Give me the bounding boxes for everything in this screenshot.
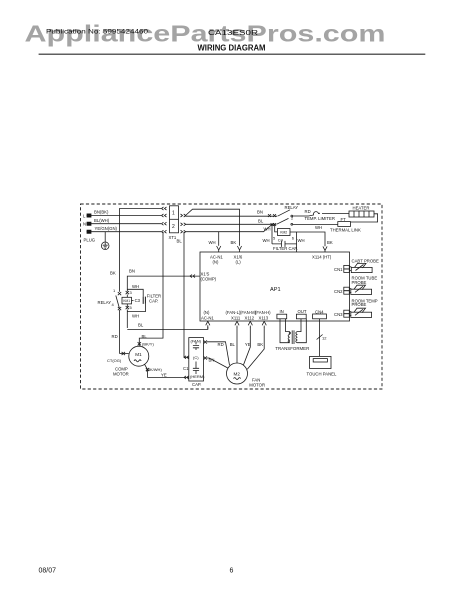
fan wire RD from cap (207, 342, 230, 365)
svg-text:6: 6 (230, 568, 234, 575)
svg-text:X1'S: X1'S (201, 271, 210, 276)
svg-text:KM1: KM1 (123, 299, 130, 303)
title rule (39, 53, 426, 55)
svg-text:WH: WH (132, 284, 139, 289)
svg-text:CAP.: CAP. (149, 298, 158, 303)
svg-text:(N): (N) (213, 259, 219, 264)
connector CN4 (313, 314, 327, 356)
svg-text:(HERM): (HERM) (190, 374, 205, 379)
svg-text:WH: WH (132, 314, 139, 319)
svg-text:X114 (HT): X114 (HT) (312, 255, 332, 260)
fan motor M2 (227, 363, 248, 384)
svg-text:IN: IN (280, 309, 284, 314)
wire YEGN spare drop to comp motor top (139, 232, 163, 347)
terminal mark comp S (146, 368, 149, 371)
connector arrows XT1 right (181, 214, 186, 233)
svg-text:(FAN-H): (FAN-H) (255, 310, 271, 315)
svg-text:RELAY: RELAY (285, 205, 299, 210)
connector CN2 (344, 287, 352, 294)
svg-text:FILTER CAP.: FILTER CAP. (273, 246, 298, 251)
wire N drop from XT1 to cap C (184, 232, 189, 358)
wire neutral to bus from board (207, 328, 209, 330)
heater return wire (351, 214, 378, 222)
fan wire BL from X111 (236, 327, 238, 363)
cabt probe (351, 263, 372, 272)
svg-text:MOTOR: MOTOR (113, 371, 129, 376)
svg-text:WH: WH (263, 238, 270, 243)
transformer core (292, 330, 294, 344)
relay coil KM2 (275, 225, 290, 236)
svg-text:WH: WH (264, 227, 271, 232)
svg-text:RD: RD (305, 209, 311, 214)
svg-text:FT: FT (341, 217, 347, 222)
wire BN to heater relay (186, 215, 278, 217)
svg-text:YE: YE (161, 372, 167, 377)
board terminal X114 (HT) top (323, 246, 327, 252)
plug prong N (87, 222, 93, 225)
svg-text:BL: BL (230, 342, 236, 347)
terminal block XT1 (170, 206, 179, 233)
svg-text:C3: C3 (135, 298, 141, 303)
svg-text:BL: BL (258, 218, 264, 223)
svg-text:CAP.: CAP. (192, 382, 201, 387)
board terminal (N) AC-N1 bottom (206, 321, 210, 328)
svg-text:PROBE: PROBE (352, 302, 367, 307)
svg-text:CN1: CN1 (334, 267, 343, 272)
relay contact K2 (271, 218, 338, 226)
board terminal X112 bottom (248, 321, 252, 327)
svg-text:(C): (C) (193, 355, 199, 360)
svg-text:(COMP): (COMP) (201, 277, 217, 282)
svg-text:BN: BN (129, 268, 135, 273)
svg-text:BK: BK (327, 240, 333, 245)
svg-text:TEMP. LIMITER: TEMP. LIMITER (305, 216, 335, 221)
thermal link FT (338, 222, 351, 227)
connector arrows XT1 left (162, 207, 167, 233)
svg-text:WIRING DIAGRAM: WIRING DIAGRAM (198, 44, 266, 53)
svg-text:BL(WH): BL(WH) (94, 218, 110, 223)
svg-text:BL: BL (138, 322, 144, 327)
wire X1'S comp signal (127, 276, 199, 291)
fan wire YE from X112 (244, 327, 251, 365)
svg-text:2: 2 (172, 224, 175, 230)
svg-text:RD: RD (112, 334, 118, 339)
svg-text:CN2: CN2 (334, 289, 343, 294)
wire WH neutral run (186, 225, 273, 232)
svg-text:X111: X111 (231, 315, 241, 320)
svg-text:THERMAL LINK: THERMAL LINK (330, 228, 361, 233)
neutral bus BL (127, 327, 208, 330)
svg-text:N: N (83, 222, 86, 227)
svg-text:MOTOR: MOTOR (249, 382, 265, 387)
capacitor C3 plates (143, 297, 145, 304)
svg-text:C1: C1 (183, 366, 189, 371)
wire BN(BK) from plug L to XT1 (92, 215, 161, 217)
svg-text:(BK/Y): (BK/Y) (142, 342, 154, 347)
capacitor C1 fan section plates (193, 342, 199, 350)
transformer IN connector (277, 314, 287, 319)
svg-text:X112: X112 (245, 315, 255, 320)
connector CN3 (344, 310, 352, 317)
svg-text:(BK/WH): (BK/WH) (146, 367, 162, 372)
svg-text:M1: M1 (135, 352, 142, 357)
wire RD to comp motor left (120, 353, 129, 355)
transformer OUT connector (296, 314, 306, 319)
svg-text:WH: WH (315, 225, 322, 230)
relay contact K1 (268, 210, 309, 217)
compressor motor M1 (129, 346, 149, 366)
svg-text:CA13ES0R: CA13ES0R (208, 30, 258, 37)
wire WH drop to board AC-N1 (218, 232, 220, 246)
wire L leg to board X1/6 (186, 209, 240, 246)
svg-text:BK: BK (110, 271, 116, 276)
svg-text:AC-N1: AC-N1 (201, 315, 214, 320)
ribbon slash 12 (317, 335, 323, 340)
terminal mark comp left (122, 352, 125, 355)
svg-text:12: 12 (322, 336, 327, 341)
transformer primary winding (280, 319, 291, 343)
svg-text:(FAN-L): (FAN-L) (226, 310, 241, 315)
terminal mark comp top (138, 342, 141, 345)
svg-text:CN4: CN4 (315, 309, 324, 314)
wire BL to heater relay 2 (186, 223, 277, 225)
plug prong L (87, 214, 93, 217)
wire coil to X114 (290, 232, 325, 246)
wire WH to board edge (296, 232, 298, 252)
touch panel (310, 356, 331, 368)
svg-text:YE/GN(GN): YE/GN(GN) (95, 226, 118, 231)
svg-text:YE: YE (245, 342, 251, 347)
svg-text:RELAY: RELAY (98, 300, 112, 305)
svg-text:BL: BL (142, 334, 148, 339)
svg-text:C4: C4 (278, 237, 284, 242)
svg-text:RD: RD (218, 342, 224, 347)
svg-text:X113: X113 (259, 315, 269, 320)
svg-text:BK: BK (257, 342, 263, 347)
temp limiter (309, 212, 350, 216)
svg-text:OUT: OUT (298, 309, 307, 314)
plug prong GND (87, 230, 93, 233)
svg-text:(L): (L) (236, 259, 242, 264)
connector CN1 (344, 265, 352, 272)
svg-text:PROBE: PROBE (352, 280, 367, 285)
svg-text:HEATER: HEATER (353, 206, 370, 211)
svg-text:BK: BK (231, 240, 237, 245)
svg-text:BN: BN (257, 210, 263, 215)
control board AP1 (200, 252, 350, 321)
svg-text:PLUG: PLUG (84, 238, 96, 243)
heater (349, 211, 374, 217)
wire YE/GN(GN) from plug to XT1 (92, 231, 161, 233)
svg-text:BN: BN (209, 358, 215, 363)
svg-text:BN(BK): BN(BK) (94, 210, 109, 215)
svg-text:TRANSFORMER: TRANSFORMER (275, 346, 309, 351)
capacitor C1 herm section plates (193, 362, 199, 375)
svg-text:BL: BL (177, 239, 183, 244)
svg-text:CABT PROBE: CABT PROBE (352, 258, 379, 263)
diagram dashed border (81, 204, 383, 389)
filter cap across line (272, 225, 297, 247)
fan wire BN from cap (207, 358, 228, 368)
room temp probe (351, 308, 372, 317)
wire BL(WH) from plug N to XT1 (92, 223, 161, 225)
run capacitor C1 box (189, 338, 204, 381)
svg-text:AP1: AP1 (270, 287, 281, 293)
transformer secondary winding (296, 319, 307, 343)
svg-text:WH: WH (298, 238, 305, 243)
svg-text:(N): (N) (204, 310, 210, 315)
compressor relay coil KM1 (122, 291, 132, 328)
room tube probe (351, 285, 372, 294)
svg-text:(FAN): (FAN) (191, 339, 202, 344)
compressor relay contact (116, 292, 121, 354)
board terminal X111 bottom (235, 321, 239, 327)
svg-text:CT(OG): CT(OG) (107, 358, 122, 363)
svg-text:KM2: KM2 (280, 231, 287, 235)
svg-text:M2: M2 (234, 371, 241, 376)
fan wire BK from X113 (247, 327, 264, 369)
board terminal X113 bottom (262, 321, 266, 327)
connector arrows X1'S (190, 275, 195, 278)
svg-text:TOUCH PANEL: TOUCH PANEL (307, 372, 337, 377)
wire BK top feed to XT1 pin1 (120, 209, 162, 292)
wire YE comp to cap HERM (145, 364, 189, 377)
svg-text:1: 1 (172, 211, 175, 217)
svg-text:Publication No: 5995424460: Publication No: 5995424460 (46, 29, 148, 36)
board terminal X1/6 (L) top (237, 246, 241, 252)
svg-text:CN3: CN3 (334, 312, 343, 317)
board terminal AC-N1 (N) top (217, 246, 221, 252)
svg-text:08/07: 08/07 (39, 568, 57, 575)
ground (101, 232, 109, 250)
cap terminal marks (184, 340, 207, 379)
filter cap C3 loop (127, 289, 145, 311)
svg-text:WH: WH (209, 240, 216, 245)
